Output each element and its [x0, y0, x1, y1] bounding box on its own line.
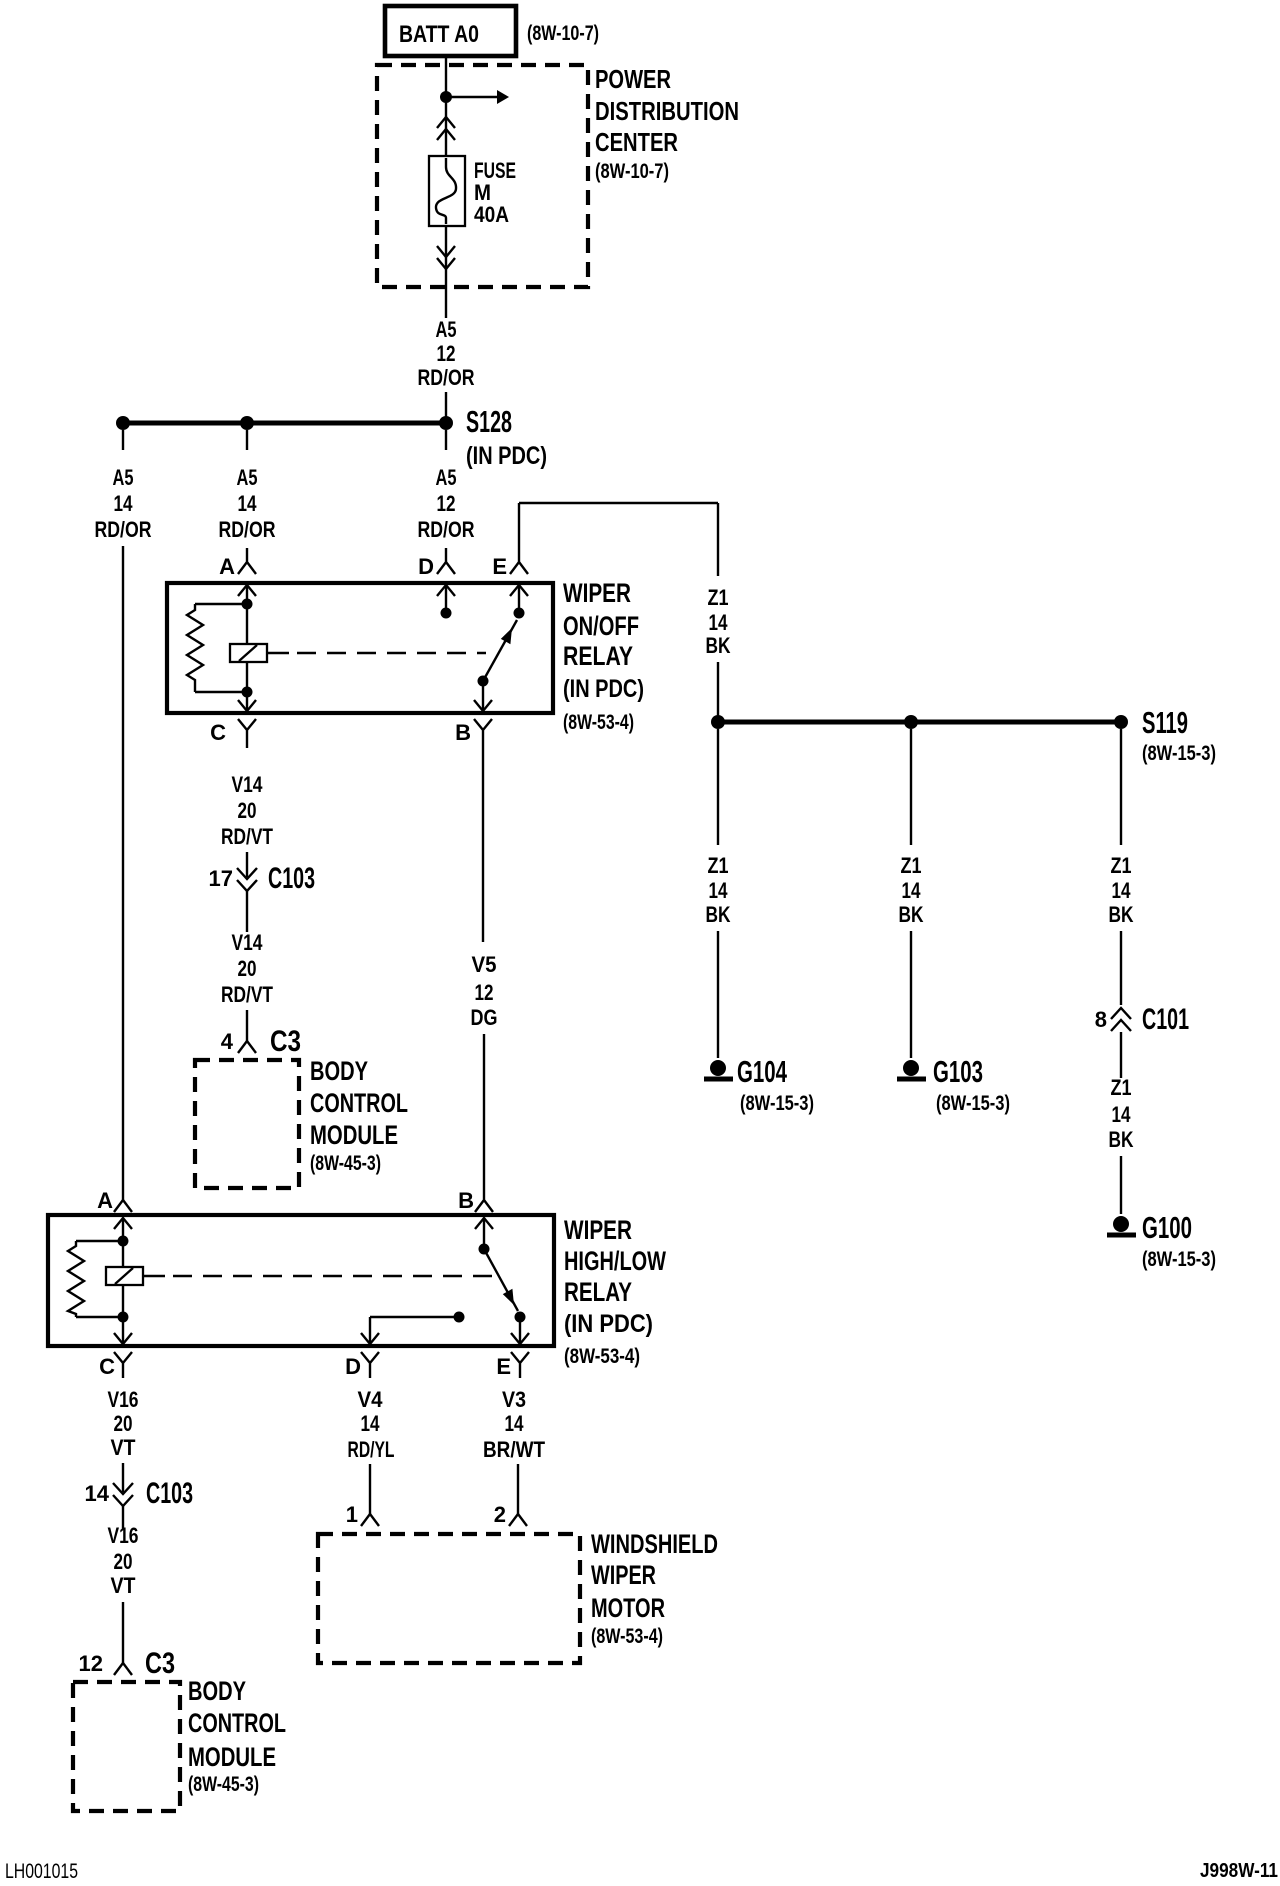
svg-text:14: 14 [238, 491, 258, 516]
svg-text:1: 1 [346, 1502, 358, 1527]
svg-text:RD/OR: RD/OR [418, 517, 475, 542]
svg-text:(8W-10-7): (8W-10-7) [527, 22, 599, 45]
svg-text:RD/VT: RD/VT [221, 982, 273, 1007]
svg-text:B: B [455, 720, 471, 745]
svg-text:CONTROL: CONTROL [188, 1708, 286, 1738]
svg-text:12: 12 [475, 980, 494, 1005]
svg-text:CONTROL: CONTROL [310, 1088, 408, 1118]
svg-text:G103: G103 [933, 1054, 983, 1089]
svg-text:14: 14 [709, 610, 729, 635]
svg-text:A5: A5 [436, 317, 457, 342]
svg-text:V16: V16 [108, 1387, 139, 1412]
svg-text:RELAY: RELAY [563, 641, 633, 671]
svg-text:RD/OR: RD/OR [95, 517, 152, 542]
svg-text:14: 14 [361, 1411, 381, 1436]
svg-text:D: D [418, 554, 434, 579]
svg-text:(IN PDC): (IN PDC) [564, 1310, 653, 1338]
svg-text:C103: C103 [268, 862, 315, 895]
svg-text:A5: A5 [436, 465, 457, 490]
svg-text:RD/YL: RD/YL [348, 1437, 395, 1462]
svg-text:BK: BK [899, 902, 924, 927]
svg-text:(8W-10-7): (8W-10-7) [595, 160, 669, 183]
svg-text:WINDSHIELD: WINDSHIELD [591, 1529, 718, 1559]
svg-text:POWER: POWER [595, 64, 671, 94]
svg-text:VT: VT [111, 1573, 136, 1598]
svg-text:A: A [97, 1188, 113, 1213]
svg-text:Z1: Z1 [1111, 853, 1132, 878]
svg-text:A5: A5 [237, 465, 258, 490]
svg-text:Z1: Z1 [901, 853, 922, 878]
svg-text:C: C [99, 1354, 115, 1379]
svg-text:2: 2 [494, 1502, 506, 1527]
svg-text:V14: V14 [232, 930, 264, 955]
svg-text:C3: C3 [270, 1025, 301, 1058]
svg-text:Z1: Z1 [708, 853, 729, 878]
svg-text:VT: VT [111, 1435, 136, 1460]
svg-text:WIPER: WIPER [563, 578, 631, 608]
svg-text:12: 12 [79, 1651, 103, 1676]
svg-text:MODULE: MODULE [310, 1120, 398, 1150]
svg-text:S128: S128 [466, 404, 512, 439]
svg-text:(8W-15-3): (8W-15-3) [1142, 742, 1216, 765]
svg-text:17: 17 [209, 866, 233, 891]
svg-text:A5: A5 [113, 465, 134, 490]
svg-text:S119: S119 [1142, 705, 1188, 740]
svg-text:8: 8 [1095, 1007, 1107, 1032]
svg-text:(8W-15-3): (8W-15-3) [1142, 1248, 1216, 1271]
svg-text:BK: BK [706, 633, 731, 658]
svg-text:WIPER: WIPER [591, 1560, 656, 1590]
svg-text:40A: 40A [474, 202, 509, 227]
svg-text:(8W-53-4): (8W-53-4) [563, 711, 634, 734]
svg-text:20: 20 [114, 1411, 133, 1436]
svg-text:B: B [458, 1188, 474, 1213]
svg-text:HIGH/LOW: HIGH/LOW [564, 1246, 666, 1276]
svg-text:G104: G104 [737, 1054, 787, 1089]
svg-text:14: 14 [902, 878, 922, 903]
svg-text:C: C [210, 720, 226, 745]
svg-text:14: 14 [85, 1481, 110, 1506]
svg-text:RELAY: RELAY [564, 1277, 632, 1307]
svg-text:LH001015: LH001015 [5, 1860, 78, 1883]
svg-text:20: 20 [238, 798, 257, 823]
svg-text:DISTRIBUTION: DISTRIBUTION [595, 96, 739, 126]
svg-text:20: 20 [114, 1549, 133, 1574]
svg-text:BR/WT: BR/WT [483, 1437, 545, 1462]
svg-text:E: E [496, 1354, 511, 1379]
svg-text:12: 12 [437, 341, 456, 366]
svg-text:MODULE: MODULE [188, 1742, 276, 1772]
svg-text:DG: DG [471, 1005, 498, 1030]
svg-text:12: 12 [437, 491, 456, 516]
svg-text:ON/OFF: ON/OFF [563, 611, 639, 641]
svg-text:BATT A0: BATT A0 [399, 21, 479, 48]
svg-text:BK: BK [706, 902, 731, 927]
svg-text:(8W-15-3): (8W-15-3) [936, 1092, 1010, 1115]
svg-text:14: 14 [1112, 878, 1132, 903]
svg-text:RD/VT: RD/VT [221, 824, 273, 849]
svg-text:V14: V14 [232, 772, 264, 797]
svg-text:(8W-45-3): (8W-45-3) [310, 1152, 381, 1175]
svg-text:J998W-11: J998W-11 [1200, 1860, 1278, 1882]
svg-text:(8W-53-4): (8W-53-4) [591, 1625, 663, 1648]
svg-text:MOTOR: MOTOR [591, 1593, 665, 1623]
svg-text:14: 14 [1112, 1102, 1132, 1127]
svg-text:C101: C101 [1142, 1003, 1189, 1036]
svg-text:4: 4 [221, 1029, 234, 1054]
svg-text:(8W-53-4): (8W-53-4) [564, 1345, 640, 1368]
svg-text:D: D [345, 1354, 361, 1379]
svg-text:20: 20 [238, 956, 257, 981]
svg-text:14: 14 [505, 1411, 525, 1436]
svg-text:Z1: Z1 [1111, 1075, 1132, 1100]
svg-text:V16: V16 [108, 1523, 139, 1548]
svg-text:WIPER: WIPER [564, 1215, 632, 1245]
svg-text:BK: BK [1109, 1127, 1134, 1152]
svg-text:V4: V4 [358, 1387, 384, 1412]
svg-text:RD/OR: RD/OR [219, 517, 276, 542]
svg-text:(IN PDC): (IN PDC) [466, 442, 547, 470]
svg-text:RD/OR: RD/OR [418, 365, 475, 390]
svg-text:(8W-45-3): (8W-45-3) [188, 1773, 259, 1796]
svg-text:V3: V3 [502, 1387, 526, 1412]
svg-text:E: E [492, 554, 507, 579]
svg-text:C3: C3 [145, 1647, 175, 1680]
svg-text:(8W-15-3): (8W-15-3) [740, 1092, 814, 1115]
svg-text:C103: C103 [146, 1477, 193, 1510]
svg-text:BODY: BODY [310, 1056, 368, 1086]
svg-text:G100: G100 [1142, 1210, 1192, 1245]
svg-text:14: 14 [709, 878, 729, 903]
svg-text:A: A [219, 554, 235, 579]
svg-text:BK: BK [1109, 902, 1134, 927]
svg-text:BODY: BODY [188, 1676, 246, 1706]
svg-text:CENTER: CENTER [595, 127, 678, 157]
svg-text:V5: V5 [472, 952, 497, 977]
svg-text:Z1: Z1 [708, 585, 729, 610]
svg-text:(IN PDC): (IN PDC) [563, 675, 644, 703]
svg-text:14: 14 [114, 491, 134, 516]
